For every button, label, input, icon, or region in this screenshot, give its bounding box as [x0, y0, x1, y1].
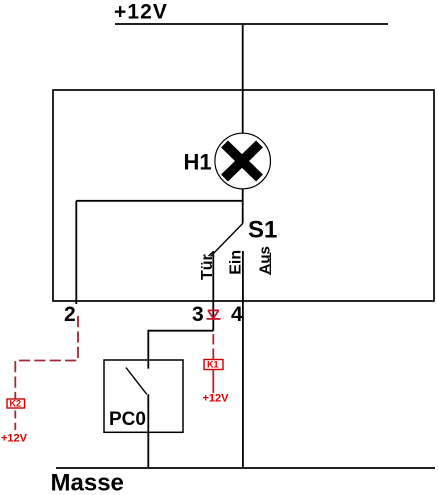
coil K1 box: [204, 360, 223, 370]
Masse rail wire: [56, 467, 435, 469]
svg-text:Tür: Tür: [199, 254, 216, 280]
module outline box: [53, 90, 434, 301]
svg-text:+12V: +12V: [114, 1, 168, 24]
svg-text:K1: K1: [207, 360, 219, 370]
switch S1 blade: [211, 224, 243, 257]
wire down to terminal 2: [75, 201, 77, 304]
wire below coil K1: [212, 370, 214, 394]
wire from terminal 3 to PC0 contact: [148, 331, 213, 369]
svg-text:+12V: +12V: [1, 433, 28, 445]
wire from +12V rail down to lamp H1: [242, 24, 244, 134]
wire horizontal branch inside box: [76, 200, 242, 202]
coil K2 box: [7, 399, 25, 409]
svg-text:PC0: PC0: [109, 409, 146, 430]
svg-text:+12V: +12V: [203, 393, 230, 405]
node Tuer contact tick: [209, 252, 214, 257]
lamp H1: [215, 133, 271, 189]
svg-text:K2: K2: [10, 399, 22, 409]
svg-text:Masse: Masse: [51, 470, 124, 495]
dashed wire below coil K2: [14, 411, 16, 431]
svg-text:3: 3: [192, 303, 204, 326]
wire from Tuer contact to terminal 3: [212, 251, 214, 331]
wire Ein contact down to Masse rail: [242, 251, 244, 468]
svg-text:2: 2: [64, 303, 76, 326]
svg-text:Ein: Ein: [228, 250, 245, 275]
PC0 contact blade: [126, 368, 147, 395]
wire from PC0 to Masse rail: [147, 394, 149, 468]
svg-text:H1: H1: [184, 150, 212, 175]
wire from lamp H1 to switch S1 common: [242, 189, 244, 224]
dashed link wire terminal 3 to coil K1: [212, 334, 214, 360]
dashed link wire terminal 2 to coil K2: [15, 316, 78, 399]
label Aus (rotated, underlined): [256, 246, 273, 275]
svg-text:4: 4: [231, 303, 243, 326]
interruption point arrow to K1 (red triangle): [207, 310, 221, 319]
svg-text:S1: S1: [248, 217, 277, 244]
+12V supply rail wire: [115, 23, 388, 25]
PC0 contact box: [104, 360, 183, 432]
